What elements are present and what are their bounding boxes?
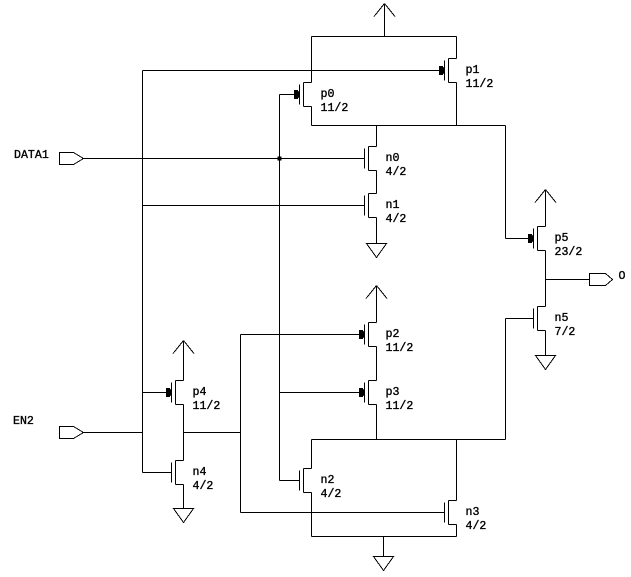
wire DATA1 net vertical to p0 gate (279, 95, 281, 159)
wire n2 source down (311, 493, 313, 537)
transistor p0 (294, 83, 348, 116)
wire p5 source down (545, 251, 547, 307)
power VDD symbol above p2 (366, 286, 387, 323)
transistor n5 (534, 307, 576, 340)
ground bottom center (374, 557, 394, 571)
svg-text:4/2: 4/2 (386, 166, 407, 179)
svg-text:O: O (619, 270, 626, 283)
wire EN2 net vertical upper (142, 71, 144, 206)
wire p2 source to p3 drain (376, 347, 378, 381)
svg-text:p2: p2 (386, 328, 400, 341)
node DATA1 junction (278, 157, 282, 161)
ground below n1 (367, 244, 387, 258)
svg-text:11/2: 11/2 (466, 78, 494, 91)
svg-text:4/2: 4/2 (466, 520, 487, 533)
svg-text:n3: n3 (466, 506, 480, 519)
wire p1 source down (456, 83, 458, 126)
svg-text:11/2: 11/2 (386, 342, 414, 355)
wire p3 source down (376, 405, 378, 440)
wire EN2 net vertical middle (142, 206, 144, 433)
wire n4 gate lead (143, 472, 172, 474)
wire n5 source down (545, 331, 547, 356)
wire n1 source down (376, 218, 378, 244)
transistor p2 (359, 323, 413, 356)
power VDD symbol above p5 (535, 190, 556, 227)
transistor p1 (439, 59, 493, 92)
transistor p4 (166, 381, 220, 414)
svg-text:4/2: 4/2 (386, 213, 407, 226)
transistor n4 (172, 461, 214, 494)
transistor n0 (365, 147, 407, 180)
svg-text:EN2: EN2 (13, 415, 34, 428)
svg-text:11/2: 11/2 (386, 400, 414, 413)
wire n2 drain up (311, 440, 313, 469)
svg-text:n2: n2 (321, 474, 335, 487)
svg-text:n4: n4 (193, 466, 207, 479)
wire p2 gate line (241, 334, 360, 336)
wire n3 drain up (456, 440, 458, 501)
power VDD symbol top (374, 4, 395, 37)
transistor p3 (359, 381, 413, 414)
transistor n2 (300, 469, 342, 502)
svg-text:4/2: 4/2 (193, 480, 214, 493)
transistor p5 (528, 227, 582, 260)
svg-text:DATA1: DATA1 (14, 149, 49, 162)
wire n3 source down (456, 525, 458, 537)
svg-text:p5: p5 (555, 232, 569, 245)
svg-text:7/2: 7/2 (555, 326, 576, 339)
wire EN2 net vertical lower (142, 433, 144, 473)
transistor n3 (445, 501, 487, 534)
svg-text:p4: p4 (193, 386, 207, 399)
wire p0 source down (311, 107, 313, 126)
wire DATA1 net vertical to p3 gate (279, 159, 281, 393)
wire n3 gate line (241, 512, 445, 514)
wire n0 drain up (376, 126, 378, 147)
wire p3 gate line (280, 392, 360, 394)
wire n1 gate line (143, 205, 365, 207)
svg-text:23/2: 23/2 (555, 246, 583, 259)
wire ground stem bottom (383, 537, 385, 557)
wire p1 drain to VDD rail (456, 37, 458, 59)
wire p4 gate lead (143, 392, 167, 394)
wire n0 source to n1 drain (376, 171, 378, 194)
wire DATA1 net vertical to n2 gate (279, 393, 281, 481)
svg-text:11/2: 11/2 (321, 102, 349, 115)
wire n2 gate lead (280, 480, 300, 482)
svg-text:11/2: 11/2 (193, 400, 221, 413)
svg-text:n1: n1 (386, 199, 400, 212)
wire mid rail p0/p1 sources (312, 125, 506, 127)
wire p4 source down (183, 405, 185, 433)
wire output line (546, 279, 590, 281)
wire p0 drain to VDD rail (311, 37, 313, 83)
wire DATA1 line to n0 gate (84, 158, 365, 160)
wire n4 source down (183, 485, 185, 509)
wire ENB net vertical upper (240, 335, 242, 433)
transistor n1 (365, 194, 407, 227)
wire p5 gate lead horizontal (506, 238, 529, 240)
wire p0 gate lead (280, 94, 295, 96)
input pin DATA1 (14, 149, 84, 165)
ground below n5 (536, 356, 556, 370)
svg-text:p1: p1 (466, 64, 480, 77)
wire VDD rail top (312, 36, 457, 38)
wire p5 gate feed vertical (505, 126, 507, 239)
wire node line n2/n3 drains (312, 439, 506, 441)
svg-text:n0: n0 (386, 152, 400, 165)
svg-text:n5: n5 (555, 312, 569, 325)
wire EN2 pin line (84, 432, 143, 434)
wire n5 gate lead horizontal (506, 318, 534, 320)
wire ENB net vertical lower (240, 433, 242, 513)
wire bottom ground rail (312, 536, 457, 538)
wire n4 drain up (183, 433, 185, 461)
wire n5 gate feed vertical (505, 319, 507, 440)
svg-text:4/2: 4/2 (321, 488, 342, 501)
power VDD symbol above p4 (173, 341, 194, 381)
svg-text:p0: p0 (321, 88, 335, 101)
svg-text:p3: p3 (386, 386, 400, 399)
ground below n4 (174, 509, 194, 523)
wire inverter output horizontal (184, 432, 241, 434)
wire EN2 net p1 gate horizontal (143, 70, 440, 72)
output pin O (590, 270, 626, 286)
input pin EN2 (13, 415, 84, 439)
